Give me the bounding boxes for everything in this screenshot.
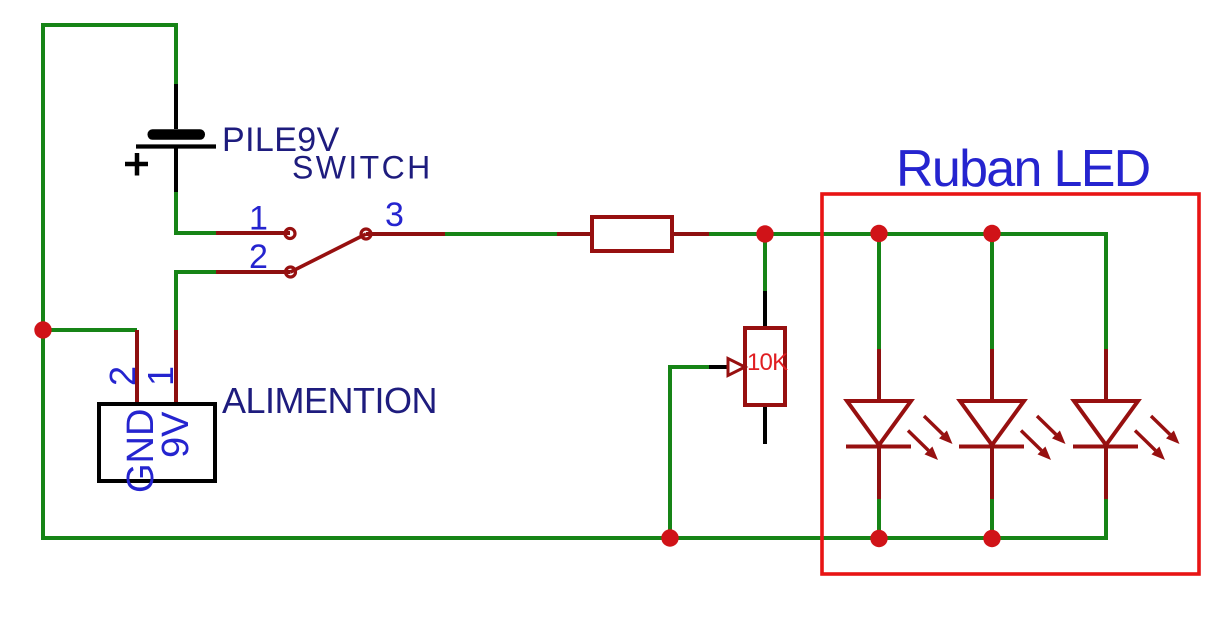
potentiometer black top stub (763, 291, 767, 328)
svg-text:2: 2 (249, 238, 268, 276)
LED2 cathode lead (990, 446, 994, 499)
connector ALIMENTION box (99, 404, 215, 481)
LED3 cathode bar (1073, 445, 1138, 449)
switch pin 1 circle (285, 229, 295, 239)
LED2 arrow b (1021, 431, 1042, 451)
LED3 arrow b (1135, 431, 1156, 451)
wire LED2 bottom green (990, 499, 994, 538)
LED1 cathode lead (877, 446, 881, 499)
potentiometer wiper black segment (709, 365, 728, 369)
wire dark red battery to pin1 (216, 231, 290, 235)
junction dot pot bottom node (661, 529, 678, 546)
switch lever (291, 234, 367, 272)
wire GND horizontal to connector (43, 328, 137, 332)
svg-text:9V: 9V (155, 411, 197, 458)
battery thick plate (148, 129, 206, 140)
LED1 arrow b (908, 431, 929, 451)
wire LED1 top green (877, 234, 881, 349)
Ruban LED box (822, 194, 1199, 574)
svg-text:SWITCH: SWITCH (292, 150, 433, 186)
wire battery bottom to switch pin 1 (176, 192, 216, 233)
LED3 arrow a (1151, 416, 1170, 435)
wire dark red resistor right lead (672, 232, 709, 236)
svg-text:3: 3 (385, 196, 404, 234)
switch pin 3 circle (361, 229, 371, 239)
LED2 anode lead (990, 349, 994, 401)
LED1 cathode bar (846, 445, 911, 449)
LED1 triangle (847, 401, 911, 445)
wire resistor to LED rail top (708, 234, 1106, 349)
LED2 triangle (960, 401, 1024, 445)
wire dark red connector pin 2 GND (135, 330, 139, 404)
junction dot top node (756, 225, 773, 242)
switch pin 2 circle (286, 267, 296, 277)
potentiometer body (745, 328, 785, 405)
battery bottom black lead (174, 146, 178, 192)
svg-text:1: 1 (140, 366, 181, 386)
junction dot LED1 top (870, 225, 887, 242)
wire dark red pin3 to green (366, 232, 445, 236)
LED1 anode lead (877, 349, 881, 401)
battery PILE9V symbol (125, 84, 216, 192)
svg-text:ALIMENTION: ALIMENTION (222, 380, 437, 421)
wire dark red resistor left lead (557, 232, 592, 236)
svg-text:1: 1 (249, 200, 268, 238)
wire switch pin3 to resistor green part (443, 232, 558, 236)
LED3 triangle (1074, 401, 1138, 445)
wire dark red connector pin 1 9V (174, 330, 178, 404)
wire LED1 bottom green (877, 499, 881, 538)
LED3 anode lead (1104, 349, 1108, 401)
potentiometer black bottom stub (763, 405, 767, 444)
LED D1 (846, 349, 953, 499)
LED2 cathode bar (959, 445, 1024, 449)
battery top black lead (174, 84, 178, 129)
LED1 arrow a (924, 416, 943, 435)
resistor R (592, 217, 672, 251)
LED D2 (959, 349, 1066, 499)
svg-text:2: 2 (102, 366, 143, 386)
battery thin plate (136, 144, 216, 148)
wire GND left rail and bottom rail (43, 25, 1106, 538)
junction dot LED1 bottom (870, 530, 887, 547)
svg-text:Ruban LED: Ruban LED (896, 140, 1150, 198)
battery plus sign (125, 162, 148, 167)
wire dark red to pin2 (216, 270, 291, 274)
wire pot wiper green (670, 367, 711, 538)
LED3 cathode lead (1104, 446, 1108, 499)
svg-text:10K: 10K (747, 349, 788, 376)
wire LED2 top green (990, 234, 994, 349)
wire pot top green (763, 234, 767, 291)
LED D3 (1073, 349, 1180, 499)
wire battery top lead green (174, 23, 178, 84)
LED2 arrow a (1037, 416, 1056, 435)
junction dot GND node (34, 321, 51, 338)
wire node to switch pin 2 and down to connector 9V (176, 272, 216, 331)
junction dot LED2 top (983, 225, 1000, 242)
junction dot LED2 bottom (983, 530, 1000, 547)
potentiometer wiper arrow (728, 359, 745, 376)
